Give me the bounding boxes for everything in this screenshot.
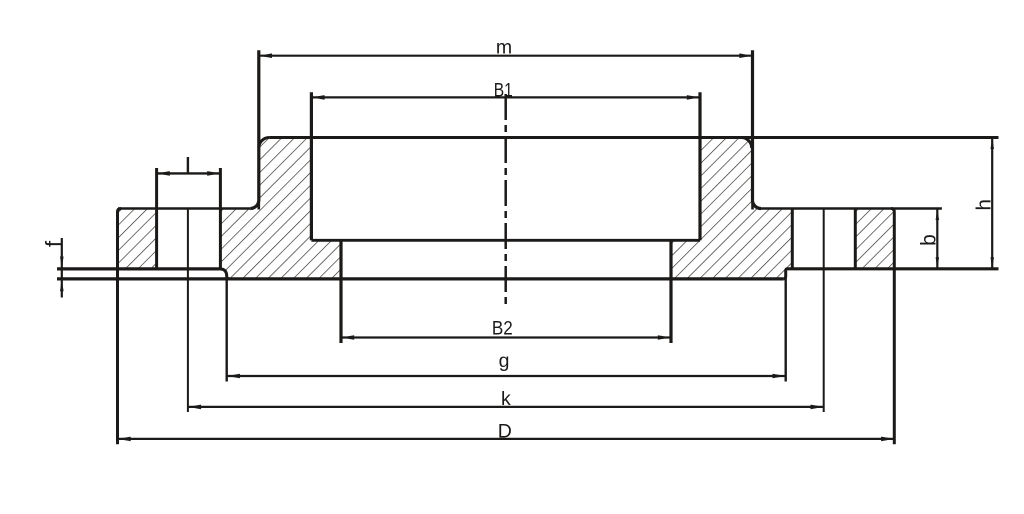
dimension B1 line [311,96,700,98]
dimension b line (vertical right) [936,209,938,269]
flange right cut section (hatched) [671,138,894,279]
sealing lip bottom line (with f extension at left) [57,277,783,280]
svg-text:k: k [501,388,511,410]
bore B2 right wall + extension [669,240,672,343]
dimension D line [118,438,895,440]
ring top face left [118,207,250,209]
g extension left [225,277,227,382]
bottom face left (with f extension) [57,267,220,270]
bore B1 right wall + extension [698,92,701,240]
top face line (hub top, continues right as h extension) [269,136,998,139]
hub left top corner [259,138,270,149]
svg-text:B2: B2 [492,318,513,339]
svg-text:D: D [498,420,512,442]
right bolt hole (white cut-out) [792,209,855,269]
bore B1 left wall + extension [310,92,313,240]
bottom face right (continues as h/b extension) [788,267,999,270]
lip left step [220,269,230,279]
dimension g line [227,375,786,377]
svg-text:h: h [972,199,995,210]
bore B2 left wall + extension [339,240,342,343]
ring top face right (continues as b extension) [760,207,942,209]
g extension right [785,277,787,382]
bolt hole diameter dimension line [157,172,221,174]
svg-text:g: g [499,350,510,372]
hub right top corner [741,138,752,149]
flange left edge (extends down as D extension) [118,209,122,445]
left bolt hole right edge + extension [219,168,222,269]
left bolt hole (white cut-out) [157,209,221,269]
right bolt hole right edge [854,209,857,269]
left bolt hole left edge + extension [155,168,158,269]
dimension f arrows (vertical left, arrows outside) [61,238,63,298]
flange left cut section (hatched) [118,138,342,279]
axis centerline (dash-dot) [504,94,507,306]
svg-text:m: m [496,36,512,58]
svg-text:b: b [918,234,941,246]
dimension B2 line [341,336,671,338]
hub right edge + m extension + fillet [753,50,762,208]
dimension k line [188,406,824,408]
right bolt hole left edge [791,209,794,269]
dimension m line [259,55,753,57]
left bolt centerline + k extension [187,208,189,412]
hub left edge + m extension + fillet [250,50,258,208]
svg-text:B1: B1 [494,79,513,101]
svg-text:f: f [41,240,66,247]
flange right edge (extends down as D extension) [891,209,894,445]
right bolt centerline + k extension [823,208,825,412]
dimension h line (vertical right) [991,138,993,269]
lip right step [783,269,787,279]
bore shoulder line [311,239,700,242]
left bolt centerline tick above [187,157,189,173]
